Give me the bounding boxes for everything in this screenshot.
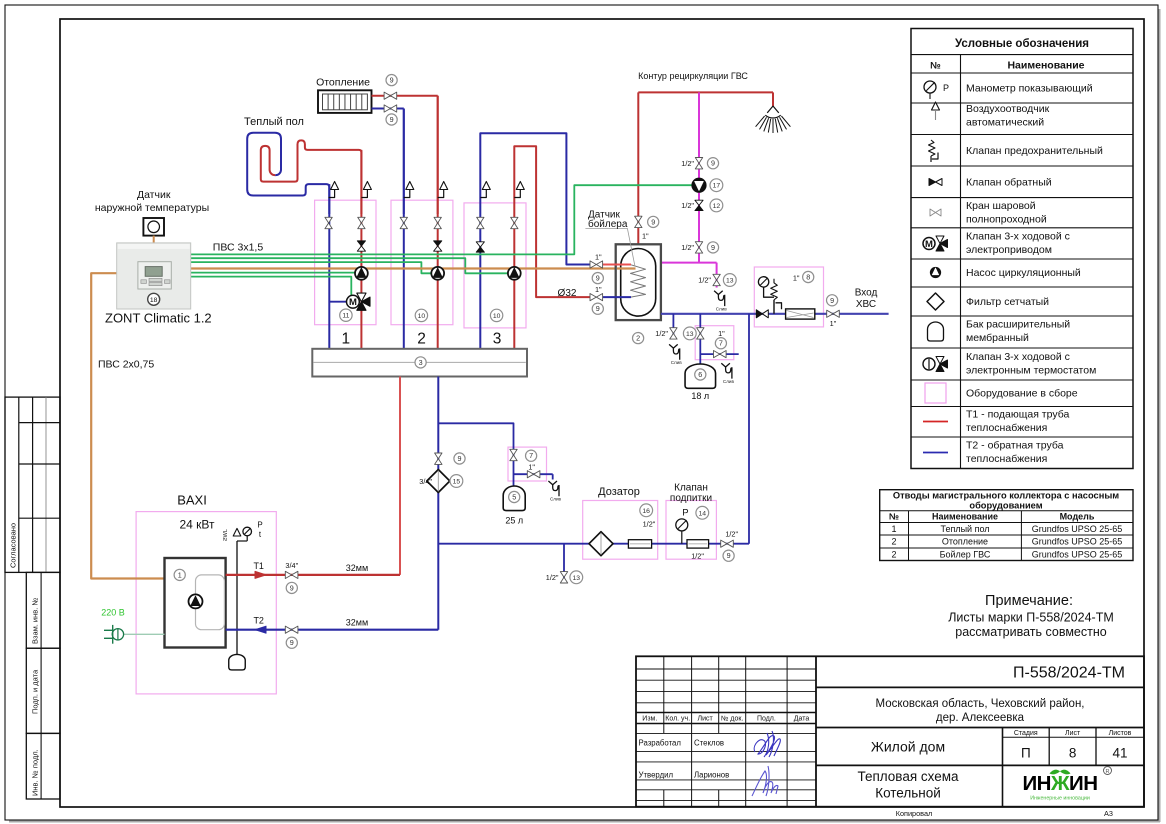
- valve 1" boiler top: [635, 216, 649, 240]
- svg-text:бойлера: бойлера: [588, 218, 628, 230]
- group 3 supply pipe: [514, 146, 591, 348]
- svg-text:BAXI: BAXI: [177, 493, 207, 508]
- radiator supply valve: [384, 92, 397, 99]
- ball valve group 2 return: [400, 217, 407, 228]
- svg-text:13: 13: [573, 575, 581, 582]
- svg-text:1": 1": [595, 253, 602, 262]
- svg-text:наружной температуры: наружной температуры: [95, 202, 209, 214]
- ball valve group 3 return: [477, 217, 484, 228]
- svg-text:теплоснабжения: теплоснабжения: [966, 422, 1047, 434]
- svg-text:11: 11: [342, 313, 349, 320]
- sheet name: [857, 769, 959, 801]
- pos 7 tank18 valve: [715, 338, 726, 349]
- stage values: [1021, 746, 1128, 761]
- pos 10 group 2: [415, 309, 427, 321]
- legend row pump: [931, 267, 1081, 279]
- legend row T1 pipe: [923, 409, 1069, 435]
- valve 25l drain: [527, 471, 540, 478]
- svg-text:10: 10: [493, 313, 501, 320]
- drain tank25: [548, 481, 561, 502]
- pump recirculation (17): [692, 178, 706, 192]
- pos 10 group 3: [490, 309, 502, 321]
- svg-text:Теплый пол: Теплый пол: [940, 524, 989, 534]
- svg-text:1/2": 1/2": [691, 551, 704, 560]
- svg-text:9: 9: [390, 76, 394, 85]
- underfloor coil blue pipe: [247, 133, 329, 214]
- svg-text:Взам. инв. №: Взам. инв. №: [31, 598, 40, 644]
- group 1 return pipe: [328, 184, 330, 349]
- air vent BAXI: [233, 528, 241, 536]
- stamp row approved: [639, 771, 730, 780]
- drain branch make-up: [563, 544, 565, 584]
- pos 9 radiator bottom: [386, 114, 397, 125]
- pump BAXI: [189, 594, 203, 608]
- svg-text:Наименование: Наименование: [932, 512, 998, 522]
- svg-text:M: M: [349, 297, 357, 308]
- cold water main pipe: [661, 313, 889, 315]
- svg-text:Утвердил: Утвердил: [639, 771, 674, 780]
- equipment box group 3: [464, 203, 526, 328]
- svg-text:Отопление: Отопление: [942, 536, 988, 546]
- pos 8: [803, 271, 814, 282]
- shower head: [756, 106, 791, 133]
- svg-text:Слив: Слив: [550, 497, 562, 502]
- svg-text:Подп. и дата: Подп. и дата: [31, 669, 40, 714]
- air vent group 1 return: [329, 182, 339, 198]
- boiler inlet red stub: [601, 264, 631, 266]
- svg-text:9: 9: [727, 551, 731, 560]
- stamp row developed: [639, 739, 725, 748]
- pos 7 tank25 valve: [526, 450, 537, 461]
- svg-text:Манометр показывающий: Манометр показывающий: [966, 83, 1093, 95]
- valve 1/2" boiler drain (13): [655, 328, 677, 339]
- valve 18l branch: [714, 351, 727, 358]
- svg-text:1/2": 1/2": [643, 520, 656, 529]
- svg-text:Изм.: Изм.: [642, 716, 657, 723]
- wire orange ПВС 2x0,75: [91, 273, 164, 578]
- boiler sensor leader: [585, 228, 635, 266]
- drain boiler: [669, 344, 682, 365]
- radiator Отопление: [316, 77, 371, 113]
- svg-text:Клапан 3-х ходовой с: Клапан 3-х ходовой с: [966, 351, 1070, 363]
- pump group 2: [431, 267, 444, 280]
- svg-text:Grundfos UPSO 25-65: Grundfos UPSO 25-65: [1032, 536, 1123, 546]
- valve 1" XBC: [827, 310, 840, 328]
- equipment box group 1: [315, 200, 376, 325]
- svg-text:3/4": 3/4": [419, 477, 432, 486]
- title block grid: [636, 656, 1144, 806]
- recirculation riser pipe: [698, 92, 700, 262]
- recirculation drain stub: [716, 263, 718, 288]
- pos 18 ZONT: [148, 293, 160, 305]
- svg-text:14: 14: [699, 510, 707, 517]
- svg-text:Кол. уч.: Кол. уч.: [665, 716, 690, 723]
- air vent group 2 supply: [438, 182, 448, 198]
- note: [948, 593, 1114, 639]
- svg-text:Насос циркуляционный: Насос циркуляционный: [966, 267, 1081, 279]
- svg-text:Стеклов: Стеклов: [694, 739, 724, 748]
- svg-text:Инв. № подл.: Инв. № подл.: [31, 749, 40, 796]
- svg-text:теплоснабжения: теплоснабжения: [966, 453, 1047, 465]
- radiator return valve: [384, 105, 397, 112]
- svg-text:дер. Алексеевка: дер. Алексеевка: [936, 712, 1025, 724]
- signature 1: [754, 731, 780, 757]
- svg-text:16: 16: [642, 508, 650, 515]
- legend row ball valve: [930, 200, 1047, 226]
- svg-text:Лист: Лист: [1065, 730, 1081, 737]
- ball valve group 1 return: [325, 217, 332, 228]
- svg-text:1/2": 1/2": [725, 530, 738, 539]
- svg-text:ƧWL: ƧWL: [223, 529, 229, 541]
- DHW riser pipe: [637, 92, 639, 244]
- svg-text:9: 9: [290, 638, 294, 647]
- pos 9 T1: [286, 582, 297, 593]
- pos 9 make-up valve: [723, 550, 734, 561]
- ball valve group 2 supply: [434, 217, 441, 228]
- svg-text:18: 18: [150, 297, 158, 304]
- valve 1/2" recirc bottom: [681, 242, 702, 253]
- 3-way valve blue stub: [329, 301, 347, 303]
- svg-text:1/2": 1/2": [698, 276, 711, 285]
- svg-text:8: 8: [1069, 746, 1077, 761]
- svg-text:Отопление: Отопление: [316, 77, 370, 89]
- wire green to 3-way valve M: [191, 277, 352, 296]
- svg-text:оборудованием: оборудованием: [969, 501, 1042, 511]
- svg-text:M: M: [925, 239, 933, 250]
- svg-text:1/2": 1/2": [546, 573, 559, 582]
- svg-text:2: 2: [891, 536, 896, 546]
- air vent group 2 return: [404, 182, 414, 198]
- legend row expansion tank: [928, 319, 1071, 345]
- wire green to pump group 2: [191, 262, 432, 273]
- valve make-up out: [721, 530, 739, 548]
- svg-text:1: 1: [341, 331, 350, 348]
- boiler vessel (2): [616, 244, 661, 320]
- manometer BAXI: [243, 527, 252, 536]
- pos 16 doser: [640, 504, 653, 517]
- svg-text:А3: А3: [1104, 809, 1113, 818]
- svg-text:220 В: 220 В: [101, 608, 125, 618]
- 3-way valve M group 1: [347, 293, 371, 310]
- svg-text:32мм: 32мм: [346, 618, 368, 628]
- valve 1" boiler coil out: [590, 285, 603, 301]
- svg-text:Бойлер ГВС: Бойлер ГВС: [940, 549, 991, 559]
- svg-text:1/2": 1/2": [681, 159, 694, 168]
- collector return drop T2: [437, 377, 439, 630]
- svg-text:рассматривать совместно: рассматривать совместно: [955, 625, 1106, 639]
- svg-text:Теплый пол: Теплый пол: [244, 116, 304, 128]
- valve T1: [285, 561, 298, 578]
- manometer make-up: [676, 507, 689, 543]
- legend row 3-way thermostat valve: [923, 351, 1096, 377]
- svg-text:1/2": 1/2": [681, 243, 694, 252]
- pos 9 coil in: [592, 273, 603, 284]
- svg-text:Согласовано: Согласовано: [9, 523, 18, 568]
- stage headers: [1014, 730, 1132, 737]
- DHW outlet pipe from boiler: [661, 262, 717, 264]
- svg-text:Котельной: Котельной: [875, 786, 941, 801]
- pump group 1: [355, 267, 368, 280]
- svg-text:Вход: Вход: [855, 288, 878, 299]
- valve 25l riser: [510, 449, 517, 460]
- svg-text:T1: T1: [253, 561, 264, 571]
- svg-text:8: 8: [806, 273, 810, 282]
- stamp header labels: [642, 716, 809, 723]
- svg-text:Т1 - подающая труба: Т1 - подающая труба: [966, 409, 1069, 421]
- radiator supply pipe: [372, 96, 438, 214]
- pos 9 radiator top: [386, 75, 397, 86]
- svg-text:Оборудование в сборе: Оборудование в сборе: [966, 388, 1078, 400]
- svg-text:T2: T2: [253, 616, 264, 626]
- svg-text:9: 9: [596, 274, 600, 283]
- svg-text:№ док.: № док.: [721, 716, 743, 723]
- wire orange sensor stub: [617, 267, 636, 269]
- pos 1 BAXI: [174, 569, 185, 580]
- svg-text:ХВС: ХВС: [856, 299, 876, 310]
- pos 9 boiler top valve: [648, 216, 659, 227]
- legend row air vent: [932, 102, 1050, 129]
- air vent group 1 supply: [361, 182, 371, 198]
- svg-text:3: 3: [419, 358, 423, 367]
- boiler BAXI unit (1): [165, 558, 226, 648]
- svg-text:Модель: Модель: [1060, 512, 1095, 522]
- svg-text:подпитки: подпитки: [670, 493, 712, 504]
- valve 1/2" recirc top: [681, 158, 702, 169]
- svg-text:9: 9: [711, 159, 715, 168]
- valve 1/2" make-up drain (13): [546, 572, 568, 583]
- svg-text:R: R: [1106, 769, 1110, 775]
- check valve group 3: [476, 242, 484, 252]
- svg-text:Клапан 3-х ходовой с: Клапан 3-х ходовой с: [966, 231, 1070, 243]
- svg-text:25 л: 25 л: [505, 515, 523, 525]
- wire orange boiler sensor: [191, 267, 635, 269]
- equipment box group 2: [391, 200, 453, 325]
- pos 13 boiler drain: [683, 327, 696, 340]
- pipe T1: [226, 571, 400, 578]
- svg-text:мембранный: мембранный: [966, 332, 1029, 344]
- svg-text:Фильтр сетчатый: Фильтр сетчатый: [966, 296, 1049, 308]
- DHW top pipe to shower: [638, 92, 773, 106]
- svg-text:Р: Р: [682, 507, 688, 518]
- valve T2: [285, 626, 298, 633]
- svg-text:2: 2: [417, 331, 426, 348]
- svg-text:6: 6: [698, 370, 702, 379]
- svg-text:10: 10: [418, 313, 426, 320]
- svg-text:ИНЖИН: ИНЖИН: [1022, 772, 1097, 795]
- svg-text:электроприводом: электроприводом: [966, 244, 1052, 256]
- svg-text:Ø32: Ø32: [558, 288, 577, 299]
- pos 9 recirc bottom: [707, 242, 718, 253]
- legend table grid: [911, 29, 1133, 469]
- tank 18l branch pipe: [700, 353, 738, 355]
- svg-text:3/4": 3/4": [285, 561, 298, 570]
- collector supply drop T1: [399, 377, 401, 575]
- svg-text:7: 7: [529, 451, 533, 460]
- svg-text:Тепловая схема: Тепловая схема: [857, 769, 959, 784]
- BAXI label: [177, 493, 215, 532]
- wire green to pump 17: [191, 185, 693, 254]
- svg-text:12: 12: [713, 203, 721, 210]
- pos 11 group 1: [340, 309, 352, 321]
- underfloor coil red pipe: [261, 140, 362, 214]
- svg-text:Ларионов: Ларионов: [694, 771, 729, 780]
- svg-text:Условные обозначения: Условные обозначения: [955, 38, 1089, 50]
- svg-text:1: 1: [178, 570, 182, 579]
- svg-text:17: 17: [713, 183, 721, 190]
- legend row safety valve: [929, 140, 1104, 162]
- svg-text:электронным термостатом: электронным термостатом: [966, 365, 1096, 377]
- INJIN logo: [1022, 767, 1111, 802]
- svg-text:1": 1": [793, 274, 800, 283]
- svg-text:Р: Р: [257, 521, 262, 530]
- svg-text:Grundfos UPSO 25-65: Grundfos UPSO 25-65: [1032, 524, 1123, 534]
- group 2 supply pipe: [437, 96, 439, 349]
- svg-text:Лист: Лист: [697, 716, 713, 723]
- manometer box8: [758, 277, 774, 298]
- svg-text:5: 5: [512, 493, 516, 502]
- reducer box8: [786, 309, 815, 319]
- pos 6 tank: [695, 369, 706, 380]
- check valve group 1: [357, 241, 365, 251]
- equipment box tank 25l valve (7): [508, 447, 547, 481]
- outdoor temperature sensor: [143, 218, 164, 236]
- group 2 return pipe: [403, 109, 405, 349]
- svg-text:18 л: 18 л: [691, 391, 709, 401]
- pump group 3: [508, 267, 521, 280]
- wire green to pump group 3: [191, 258, 509, 273]
- pos 17 pump: [710, 179, 723, 192]
- pos 3 collector: [415, 357, 426, 368]
- legend row equipment box: [925, 383, 1078, 403]
- svg-text:Отводы магистрального коллекто: Отводы магистрального коллектора с насос…: [893, 491, 1119, 501]
- svg-text:Примечание:: Примечание:: [985, 593, 1073, 609]
- pos 9 fill valve: [454, 453, 465, 464]
- check valve recirc (12): [681, 200, 703, 210]
- group 3 return pipe: [480, 133, 591, 349]
- svg-text:Листы марки П-558/2024-ТМ: Листы марки П-558/2024-ТМ: [948, 611, 1114, 625]
- tank 18l riser: [699, 314, 701, 364]
- svg-text:Слив: Слив: [716, 306, 728, 311]
- svg-text:Клапан предохранительный: Клапан предохранительный: [966, 145, 1103, 157]
- valve 1" boiler coil in: [590, 253, 603, 268]
- svg-text:Стадия: Стадия: [1014, 730, 1038, 737]
- pos 15 strainer: [450, 475, 463, 488]
- svg-text:ПВС 2x0,75: ПВС 2x0,75: [98, 359, 154, 371]
- label P t: [257, 521, 262, 540]
- svg-text:2: 2: [891, 549, 896, 559]
- svg-text:Подл.: Подл.: [757, 716, 776, 723]
- tank 25l drain pipe: [514, 474, 553, 479]
- pos 13 make-up drain: [570, 571, 583, 584]
- svg-text:Т2 - обратная труба: Т2 - обратная труба: [966, 440, 1064, 452]
- svg-text:Воздухоотводчик: Воздухоотводчик: [966, 103, 1050, 115]
- svg-text:П: П: [1021, 746, 1031, 761]
- svg-text:Кран шаровой: Кран шаровой: [966, 200, 1036, 212]
- legend row strainer: [927, 293, 1049, 310]
- equipment box BAXI: [136, 512, 276, 694]
- svg-text:Жилой дом: Жилой дом: [871, 739, 945, 755]
- svg-text:Дата: Дата: [794, 716, 810, 723]
- expansion tank 25l (5): [503, 486, 525, 511]
- pos 9 coil out: [592, 303, 603, 314]
- svg-text:1/2": 1/2": [655, 329, 668, 338]
- svg-text:Слив: Слив: [671, 360, 683, 365]
- equipment box make-up valve (14): [666, 501, 716, 560]
- svg-text:9: 9: [390, 115, 394, 124]
- svg-text:15: 15: [453, 479, 461, 486]
- svg-text:Дозатор: Дозатор: [598, 486, 640, 498]
- svg-text:№: №: [889, 512, 899, 522]
- check valve XBC: [756, 310, 768, 318]
- svg-text:2: 2: [636, 334, 640, 343]
- left stamp column: [5, 397, 60, 799]
- make-up pipe: [438, 543, 749, 545]
- strainer fill line (15): [419, 470, 450, 493]
- boiler sensor label: [588, 209, 628, 230]
- svg-text:9: 9: [290, 583, 294, 592]
- svg-text:1": 1": [528, 463, 535, 472]
- collector outlets table: [880, 490, 1133, 561]
- svg-text:Наименование: Наименование: [1007, 60, 1084, 72]
- outdoor sensor label: [95, 189, 209, 214]
- pos 13 DHW drain: [723, 274, 736, 287]
- expansion tank BAXI: [229, 654, 246, 670]
- svg-text:9: 9: [458, 454, 462, 463]
- equipment box tank 18l valve (7): [695, 326, 734, 360]
- svg-text:9: 9: [830, 296, 834, 305]
- footer labels: [896, 809, 1113, 818]
- wire green to pump group 1: [191, 272, 356, 274]
- doser strainer: [589, 532, 613, 556]
- svg-text:41: 41: [1112, 746, 1127, 761]
- svg-text:ПВС 3x1,5: ПВС 3x1,5: [213, 242, 264, 254]
- svg-text:1": 1": [718, 329, 725, 338]
- air vent group 3 return: [480, 182, 490, 198]
- svg-text:13: 13: [686, 331, 694, 338]
- svg-text:Московская область, Чеховский: Московская область, Чеховский район,: [876, 698, 1085, 710]
- svg-text:ZONT Climatic 1.2: ZONT Climatic 1.2: [105, 311, 212, 326]
- svg-text:1": 1": [830, 319, 837, 328]
- svg-text:3: 3: [493, 331, 502, 348]
- svg-text:Grundfos UPSO 25-65: Grundfos UPSO 25-65: [1032, 549, 1123, 559]
- legend row manometer: [924, 81, 1093, 99]
- svg-text:7: 7: [719, 339, 723, 348]
- svg-text:Клапан обратный: Клапан обратный: [966, 177, 1052, 189]
- legend row check valve: [929, 177, 1052, 189]
- object address: [876, 698, 1085, 724]
- svg-text:П-558/2024-ТМ: П-558/2024-ТМ: [1013, 665, 1125, 682]
- check valve group 2: [434, 241, 442, 251]
- make-up valve label: [670, 483, 712, 505]
- equipment box doser (16): [583, 501, 658, 560]
- sensor wire: [153, 236, 155, 243]
- svg-text:1: 1: [891, 524, 896, 534]
- expansion tank 18l (6): [685, 364, 716, 388]
- svg-text:Листов: Листов: [1109, 730, 1132, 737]
- group 1 supply pipe: [360, 150, 362, 349]
- svg-text:9: 9: [651, 217, 655, 226]
- boiler outlet blue stub: [601, 296, 631, 298]
- svg-text:24 кВт: 24 кВт: [179, 518, 215, 532]
- svg-text:Разработал: Разработал: [639, 739, 682, 748]
- valve fill line: [435, 453, 442, 464]
- drain DHW: [714, 291, 727, 312]
- pos 14 make-up: [696, 506, 709, 519]
- collector (3): [312, 349, 527, 377]
- svg-text:1": 1": [595, 285, 602, 294]
- label Вход ХВС: [855, 288, 878, 311]
- air vent group 3 supply: [514, 182, 524, 198]
